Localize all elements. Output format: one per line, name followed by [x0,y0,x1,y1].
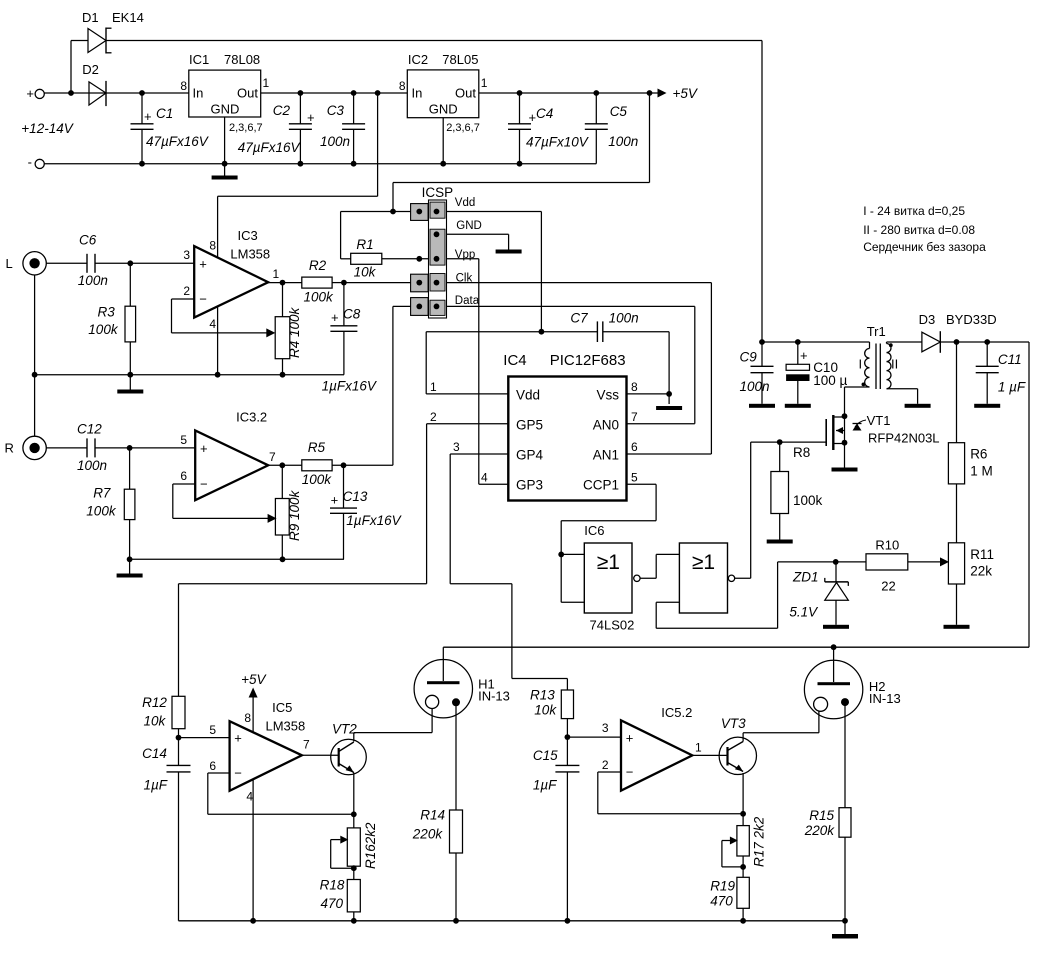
svg-text:C1: C1 [156,106,173,121]
svg-text:+: + [529,110,537,125]
svg-text:Сердечник без зазора: Сердечник без зазора [863,240,986,254]
svg-text:5: 5 [631,471,638,485]
svg-text:1 µF: 1 µF [998,380,1026,395]
svg-text:R19: R19 [710,879,735,894]
svg-text:≥1: ≥1 [692,551,715,574]
svg-text:+: + [800,348,808,363]
svg-text:7: 7 [303,738,310,752]
svg-text:3: 3 [602,721,609,735]
svg-text:8: 8 [631,380,638,394]
svg-text:−: − [234,766,242,781]
svg-text:2: 2 [183,284,190,298]
svg-text:R14: R14 [420,808,445,823]
svg-text:2: 2 [602,758,609,772]
svg-text:100k: 100k [86,504,117,519]
svg-text:220k: 220k [412,827,444,842]
svg-text:R7: R7 [93,486,111,501]
svg-text:VT3: VT3 [721,716,746,731]
svg-text:In: In [412,86,423,101]
svg-text:47µFx16V: 47µFx16V [238,140,302,155]
svg-text:78L05: 78L05 [442,52,478,67]
svg-text:C3: C3 [327,103,345,118]
svg-text:Tr1: Tr1 [867,324,886,339]
svg-text:IC3.2: IC3.2 [236,410,267,425]
svg-text:−: − [626,765,634,780]
svg-text:IN-13: IN-13 [478,689,510,704]
svg-text:R4 100k: R4 100k [287,306,302,358]
svg-text:Vdd: Vdd [516,388,540,403]
svg-text:100 µ: 100 µ [813,373,847,388]
svg-text:+: + [200,441,208,456]
svg-text:+5V: +5V [673,86,699,101]
svg-text:220k: 220k [804,823,836,838]
svg-text:78L08: 78L08 [224,52,260,67]
svg-text:GND: GND [211,102,240,117]
svg-text:1: 1 [430,380,437,394]
svg-text:6: 6 [631,440,638,454]
svg-text:6: 6 [180,469,187,483]
svg-text:+: + [199,257,207,272]
svg-text:100k: 100k [302,472,333,487]
svg-text:Out: Out [455,86,476,101]
svg-text:R11: R11 [970,547,994,562]
svg-text:+: + [144,109,152,124]
svg-text:1: 1 [481,76,488,90]
svg-text:IC5: IC5 [272,700,292,715]
svg-text:PIC12F683: PIC12F683 [550,352,626,369]
svg-text:2: 2 [430,410,437,424]
svg-text:RFP42N03L: RFP42N03L [868,431,940,446]
svg-text:D2: D2 [82,62,99,77]
svg-text:GP3: GP3 [516,478,543,493]
svg-text:VT2: VT2 [332,722,357,737]
svg-text:+: + [26,86,34,101]
svg-text:AN1: AN1 [593,448,619,463]
svg-text:C6: C6 [79,233,97,248]
svg-text:IC6: IC6 [584,523,604,538]
svg-text:LM358: LM358 [266,719,306,734]
svg-text:Clk: Clk [456,273,473,285]
svg-text:IN-13: IN-13 [869,691,901,706]
svg-text:5.1V: 5.1V [789,605,819,620]
svg-text:3: 3 [183,248,190,262]
svg-text:100n: 100n [740,379,770,394]
svg-text:II: II [891,357,898,372]
svg-text:+: + [331,310,339,325]
svg-text:1: 1 [273,267,280,281]
svg-text:GND: GND [456,220,482,232]
svg-text:C7: C7 [570,311,588,326]
svg-text:Vpp: Vpp [455,249,475,261]
svg-text:C9: C9 [740,350,758,365]
svg-text:R: R [5,441,14,456]
svg-text:R13: R13 [530,688,555,703]
svg-text:100n: 100n [320,134,350,149]
svg-text:47µFx16V: 47µFx16V [146,134,210,149]
svg-text:1 M: 1 M [970,464,993,479]
svg-text:5: 5 [180,433,187,447]
svg-text:2,3,6,7: 2,3,6,7 [229,122,263,134]
svg-text:+12-14V: +12-14V [21,121,74,136]
svg-text:IC5.2: IC5.2 [661,705,692,720]
svg-text:100n: 100n [77,458,107,473]
svg-text:C4: C4 [536,106,553,121]
svg-text:LM358: LM358 [230,247,270,262]
svg-text:1µFx16V: 1µFx16V [322,379,378,394]
svg-text:R2: R2 [309,258,327,273]
svg-text:470: 470 [710,894,733,909]
svg-text:100n: 100n [608,134,638,149]
svg-text:100n: 100n [609,311,639,326]
svg-text:R10: R10 [875,538,899,553]
svg-text:R1: R1 [356,237,373,252]
svg-text:R18: R18 [320,878,345,893]
svg-text:22k: 22k [970,564,992,579]
svg-text:Data: Data [455,295,480,307]
svg-text:VT1: VT1 [867,413,891,428]
svg-text:D1: D1 [82,10,99,25]
svg-text:ZD1: ZD1 [792,570,819,585]
svg-text:+: + [234,731,242,746]
svg-text:GP4: GP4 [516,448,544,463]
svg-text:C12: C12 [77,422,102,437]
svg-text:4: 4 [209,317,216,331]
svg-text:R15: R15 [809,808,834,823]
svg-text:10k: 10k [534,703,557,718]
svg-text:CCP1: CCP1 [583,478,619,493]
svg-text:Out: Out [237,86,258,101]
svg-text:1µF: 1µF [144,778,168,793]
svg-text:R5: R5 [308,440,326,455]
svg-text:ICSP: ICSP [422,185,454,200]
svg-text:R162k2: R162k2 [363,822,378,869]
svg-text:IC1: IC1 [189,52,209,67]
svg-text:AN0: AN0 [593,418,619,433]
svg-text:EK14: EK14 [112,10,144,25]
svg-text:10k: 10k [354,265,377,280]
svg-text:+: + [307,110,315,125]
svg-text:10k: 10k [144,714,167,729]
svg-text:100k: 100k [304,290,335,305]
svg-text:R9 100k: R9 100k [287,489,302,541]
svg-text:47µFx10V: 47µFx10V [526,135,590,150]
svg-text:R8: R8 [793,445,810,460]
svg-text:7: 7 [631,410,638,424]
svg-text:6: 6 [209,759,216,773]
svg-text:8: 8 [399,79,406,93]
svg-text:C8: C8 [343,307,361,322]
svg-text:−: − [199,292,207,307]
svg-text:74LS02: 74LS02 [590,618,635,633]
svg-text:C13: C13 [343,489,368,504]
svg-text:BYD33D: BYD33D [946,312,997,327]
svg-text:−: − [200,477,208,492]
svg-text:100k: 100k [88,322,119,337]
svg-text:IC4: IC4 [503,352,526,369]
svg-text:470: 470 [321,896,344,911]
svg-text:4: 4 [246,790,253,804]
svg-text:R17 2k2: R17 2k2 [752,816,767,867]
svg-text:R6: R6 [970,447,987,462]
svg-text:I - 24 витка d=0,25: I - 24 витка d=0,25 [863,204,965,218]
svg-text:8: 8 [244,711,251,725]
svg-text:1µFx16V: 1µFx16V [346,513,402,528]
svg-text:+: + [331,493,339,508]
svg-text:II - 280 витка d=0.08: II - 280 витка d=0.08 [863,223,975,237]
svg-text:-: - [28,155,32,170]
svg-text:≥1: ≥1 [597,551,620,574]
svg-text:Vdd: Vdd [455,197,475,209]
svg-text:7: 7 [269,450,276,464]
svg-text:Vss: Vss [596,388,619,403]
svg-text:IC2: IC2 [408,52,428,67]
svg-text:L: L [6,256,13,271]
svg-text:2,3,6,7: 2,3,6,7 [446,122,480,134]
svg-text:GP5: GP5 [516,418,543,433]
svg-text:C11: C11 [998,352,1022,367]
svg-text:D3: D3 [919,312,936,327]
svg-text:R12: R12 [142,695,167,710]
svg-text:C14: C14 [142,746,167,761]
svg-text:4: 4 [481,471,488,485]
svg-text:C2: C2 [273,103,291,118]
svg-text:1: 1 [695,741,702,755]
svg-text:8: 8 [209,239,216,253]
svg-text:100k: 100k [793,493,823,508]
svg-text:GND: GND [429,102,458,117]
svg-text:IC3: IC3 [238,228,258,243]
svg-text:8: 8 [180,79,187,93]
svg-text:3: 3 [453,440,460,454]
svg-text:I: I [859,357,863,372]
svg-text:R3: R3 [98,305,116,320]
svg-text:1: 1 [263,76,270,90]
svg-text:100n: 100n [78,273,108,288]
svg-text:C5: C5 [610,104,628,119]
svg-text:+: + [626,731,634,746]
svg-text:1µF: 1µF [533,778,557,793]
svg-text:22: 22 [881,579,895,594]
svg-text:5: 5 [209,723,216,737]
svg-text:In: In [193,86,204,101]
svg-text:C15: C15 [533,748,558,763]
svg-text:+5V: +5V [241,672,267,687]
